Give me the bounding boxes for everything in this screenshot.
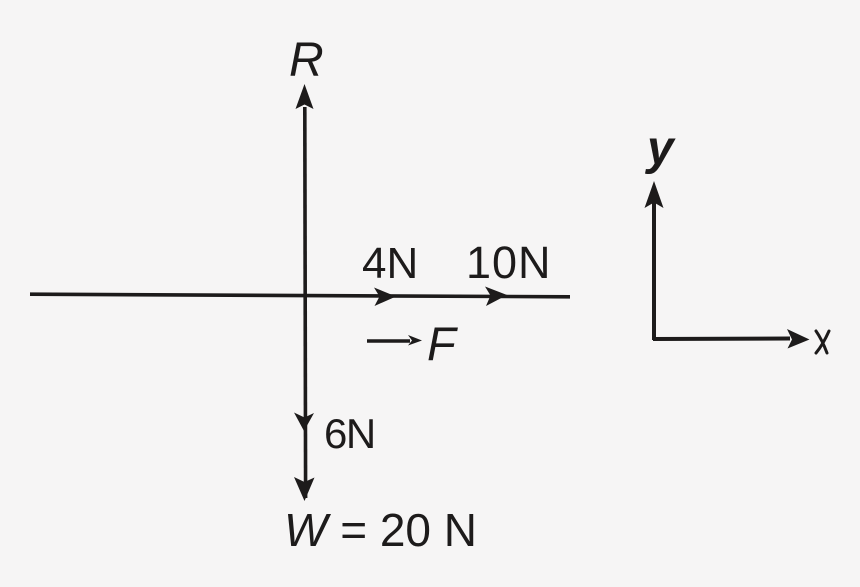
svg-text:W = 20 N: W = 20 N	[284, 504, 477, 556]
arrowhead 10N (right)	[485, 287, 507, 307]
wire: horizontal force line	[30, 294, 570, 297]
arrowhead y (up)	[645, 181, 664, 208]
svg-text:6N: 6N	[324, 410, 375, 457]
label x	[816, 331, 829, 353]
arrowhead W (down, bottom)	[294, 477, 315, 501]
arrowhead x (right)	[787, 329, 810, 349]
svg-text:y: y	[645, 122, 676, 175]
arrowhead 6N (down, mid)	[294, 413, 314, 432]
svg-text:F: F	[427, 317, 458, 370]
arrowhead 4N (right)	[374, 288, 396, 307]
wire: x axis	[653, 337, 790, 342]
svg-text:R: R	[289, 34, 324, 87]
wire: vertical force line	[303, 107, 307, 498]
wire: y axis	[652, 202, 656, 340]
svg-text:10N: 10N	[466, 237, 552, 288]
arrow F (small right arrow)	[367, 339, 410, 343]
svg-text:4N: 4N	[362, 239, 418, 288]
arrowhead R (up)	[296, 84, 314, 109]
